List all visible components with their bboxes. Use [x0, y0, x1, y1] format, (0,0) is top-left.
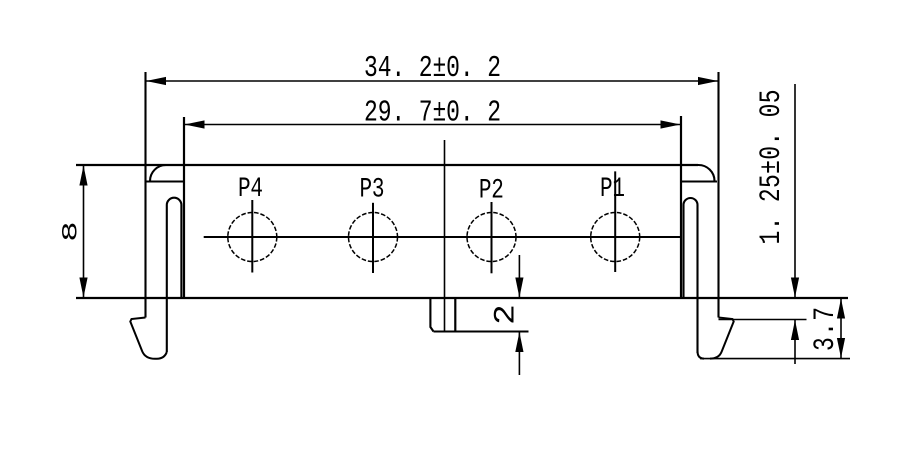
svg-text:P1: P1	[600, 175, 625, 205]
clip bottom segment left	[146, 180, 184, 182]
left pin edge near body	[180, 205, 182, 298]
vertical centerline	[444, 140, 446, 332]
svg-text:P2: P2	[479, 176, 504, 206]
center tab left edge	[430, 298, 433, 332]
right pin inner edge	[696, 205, 698, 353]
svg-text:3.7: 3.7	[809, 307, 843, 351]
hole P3 circle	[349, 213, 398, 262]
hole P1 crosshair	[614, 171, 616, 272]
left clip outer edge + 34.2 extension line	[144, 72, 146, 318]
body bottom edge with extensions	[76, 297, 848, 299]
dimension line 29.7	[184, 124, 681, 126]
hole P2 circle	[467, 213, 516, 262]
svg-text:34. 2±0. 2: 34. 2±0. 2	[364, 52, 501, 86]
left foot hook	[130, 318, 167, 359]
dimension line 2	[518, 255, 520, 298]
right pin top cap	[684, 198, 698, 205]
right foot inner corner	[698, 351, 705, 359]
hole P4 crosshair	[251, 200, 253, 273]
left pin inner edge	[166, 205, 168, 352]
foot bottom extension line right	[700, 358, 850, 360]
step extension line right	[719, 319, 807, 321]
right clip outer edge + 34.2 extension line	[717, 72, 719, 318]
svg-text:8: 8	[58, 221, 83, 241]
body top edge with 8-dim extension	[76, 164, 698, 166]
svg-text:P4: P4	[238, 175, 263, 205]
body right edge + 29.7 extension line	[680, 116, 682, 298]
clip top-right corner arc	[698, 165, 715, 181]
hole P3 crosshair	[372, 203, 374, 273]
dimension line 3.7	[840, 298, 842, 359]
right pin edge near body	[682, 205, 684, 298]
hole P1 circle	[591, 213, 640, 262]
right foot hook	[710, 318, 734, 359]
hole P4 circle	[228, 213, 277, 262]
svg-text:29. 7±0. 2: 29. 7±0. 2	[364, 97, 501, 131]
center tab bottom + 2-dim extension	[434, 330, 529, 332]
horizontal centerline through holes	[204, 236, 681, 238]
left pin top cap	[167, 198, 182, 205]
svg-text:P3: P3	[360, 175, 385, 205]
center tab right edge	[454, 298, 456, 332]
svg-text:1. 25±0. 05: 1. 25±0. 05	[755, 90, 789, 245]
hole P2 crosshair	[491, 202, 493, 273]
dimension line 34.2	[146, 80, 718, 82]
dimension line 8	[83, 165, 85, 298]
svg-text:2: 2	[488, 304, 522, 325]
clip top-left corner arc	[150, 165, 166, 181]
dimension line 1.25	[794, 84, 796, 298]
body left edge + 29.7 extension line	[183, 117, 185, 298]
clip bottom segment right	[681, 180, 717, 182]
